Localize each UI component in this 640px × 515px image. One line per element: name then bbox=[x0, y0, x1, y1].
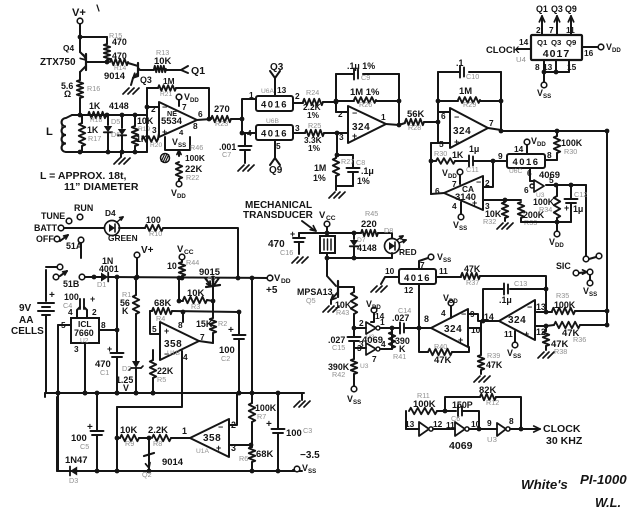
svg-text:68K: 68K bbox=[154, 297, 171, 308]
svg-text:+: + bbox=[164, 326, 169, 336]
svg-text:82K: 82K bbox=[479, 384, 496, 395]
svg-text:470: 470 bbox=[112, 51, 127, 61]
svg-text:4: 4 bbox=[68, 307, 73, 317]
svg-text:R22: R22 bbox=[186, 173, 199, 182]
svg-text:4069: 4069 bbox=[362, 334, 383, 345]
svg-text:+: + bbox=[564, 203, 569, 213]
svg-text:+: + bbox=[290, 229, 295, 239]
svg-text:SS: SS bbox=[178, 142, 186, 149]
svg-text:+5: +5 bbox=[266, 285, 278, 296]
svg-text:3: 3 bbox=[359, 339, 364, 349]
svg-text:R42: R42 bbox=[332, 370, 345, 379]
svg-text:+: + bbox=[472, 198, 477, 208]
svg-text:Q1: Q1 bbox=[191, 65, 205, 77]
svg-text:1%: 1% bbox=[307, 110, 320, 120]
svg-text:1: 1 bbox=[381, 112, 386, 122]
svg-text:1M 1%: 1M 1% bbox=[350, 86, 380, 97]
svg-text:6: 6 bbox=[198, 109, 203, 119]
svg-text:+: + bbox=[216, 443, 221, 453]
svg-text:R23: R23 bbox=[215, 119, 228, 128]
svg-text:4: 4 bbox=[381, 339, 386, 349]
svg-text:R30: R30 bbox=[434, 149, 447, 158]
svg-text:324: 324 bbox=[444, 324, 462, 335]
svg-text:100: 100 bbox=[146, 215, 161, 225]
svg-text:2: 2 bbox=[338, 109, 343, 119]
svg-text:7: 7 bbox=[549, 25, 554, 35]
svg-text:3: 3 bbox=[152, 125, 157, 135]
svg-text:Ω: Ω bbox=[64, 89, 71, 99]
svg-text:220: 220 bbox=[361, 218, 377, 229]
svg-text:Q3: Q3 bbox=[551, 38, 562, 47]
svg-text:+: + bbox=[454, 137, 459, 147]
svg-text:8: 8 bbox=[509, 416, 514, 426]
svg-text:4148: 4148 bbox=[357, 243, 377, 253]
svg-text:C15: C15 bbox=[332, 343, 345, 352]
svg-text:R8: R8 bbox=[153, 439, 162, 448]
svg-text:CLOCK: CLOCK bbox=[543, 423, 581, 435]
svg-text:11: 11 bbox=[446, 420, 455, 430]
svg-text:C3: C3 bbox=[303, 426, 312, 435]
svg-text:9: 9 bbox=[487, 418, 492, 428]
svg-text:D2: D2 bbox=[122, 364, 131, 373]
svg-text:D6: D6 bbox=[111, 130, 120, 139]
svg-text:CC: CC bbox=[184, 249, 194, 256]
svg-text:R12: R12 bbox=[486, 398, 499, 407]
svg-text:R27: R27 bbox=[341, 157, 354, 166]
svg-text:+: + bbox=[49, 290, 55, 301]
svg-text:10K: 10K bbox=[154, 55, 171, 66]
svg-text:TRANSDUCER: TRANSDUCER bbox=[243, 210, 313, 221]
svg-text:+: + bbox=[90, 294, 95, 304]
svg-text:Q1: Q1 bbox=[536, 4, 548, 14]
svg-text:Q9: Q9 bbox=[269, 165, 283, 176]
svg-text:BATT: BATT bbox=[34, 223, 58, 233]
svg-text:100K: 100K bbox=[554, 300, 576, 310]
svg-text:.1μ 1%: .1μ 1% bbox=[347, 61, 375, 71]
svg-text:47K: 47K bbox=[486, 360, 503, 370]
svg-text:7660: 7660 bbox=[74, 328, 94, 338]
svg-text:R37: R37 bbox=[466, 278, 479, 287]
svg-text:GREEN: GREEN bbox=[108, 233, 138, 243]
svg-text:270: 270 bbox=[214, 103, 230, 114]
svg-text:C2: C2 bbox=[221, 354, 230, 363]
svg-text:DD: DD bbox=[190, 97, 199, 104]
svg-text:DD: DD bbox=[281, 278, 291, 285]
svg-text:14: 14 bbox=[514, 144, 524, 154]
svg-text:2: 2 bbox=[359, 318, 364, 328]
svg-text:R25: R25 bbox=[308, 121, 321, 130]
svg-text:1%: 1% bbox=[313, 173, 326, 183]
svg-text:−: − bbox=[454, 112, 459, 122]
svg-text:4: 4 bbox=[452, 201, 457, 211]
svg-text:8: 8 bbox=[101, 320, 106, 330]
svg-text:V+: V+ bbox=[72, 7, 86, 19]
svg-text:U6A: U6A bbox=[261, 88, 275, 95]
svg-text:R38: R38 bbox=[554, 347, 567, 356]
svg-text:1: 1 bbox=[249, 90, 254, 100]
svg-text:4148: 4148 bbox=[109, 101, 129, 111]
svg-text:U4: U4 bbox=[516, 55, 527, 64]
svg-text:13: 13 bbox=[277, 85, 287, 95]
svg-text:Q4: Q4 bbox=[63, 43, 74, 53]
svg-text:3: 3 bbox=[295, 123, 300, 133]
svg-text:47K: 47K bbox=[434, 354, 451, 365]
svg-text:5: 5 bbox=[549, 175, 554, 185]
svg-text:8: 8 bbox=[424, 314, 429, 324]
svg-text:R20: R20 bbox=[150, 142, 163, 149]
svg-text:U3: U3 bbox=[487, 435, 497, 444]
svg-text:+: + bbox=[162, 127, 167, 137]
svg-text:C16: C16 bbox=[280, 248, 293, 257]
svg-text:1M: 1M bbox=[163, 76, 175, 86]
svg-text:R32: R32 bbox=[483, 217, 496, 226]
svg-text:2: 2 bbox=[151, 104, 156, 114]
svg-text:7: 7 bbox=[420, 260, 425, 270]
svg-text:W.L.: W.L. bbox=[595, 495, 621, 510]
svg-text:C10: C10 bbox=[466, 72, 479, 81]
svg-text:R36: R36 bbox=[573, 335, 586, 344]
svg-text:10: 10 bbox=[167, 261, 177, 271]
svg-text:10K: 10K bbox=[187, 287, 204, 298]
svg-text:R3: R3 bbox=[191, 302, 200, 311]
svg-text:DD: DD bbox=[177, 193, 186, 200]
svg-text:16: 16 bbox=[584, 48, 594, 58]
svg-text:Q1: Q1 bbox=[537, 38, 548, 47]
svg-text:C13: C13 bbox=[514, 279, 527, 288]
svg-text:10: 10 bbox=[471, 419, 481, 429]
svg-text:R9: R9 bbox=[125, 439, 134, 448]
svg-text:8: 8 bbox=[193, 121, 198, 131]
svg-text:2: 2 bbox=[295, 91, 300, 101]
svg-text:30 KHZ: 30 KHZ bbox=[546, 435, 583, 447]
svg-text:R19: R19 bbox=[138, 126, 151, 133]
svg-text:CELLS: CELLS bbox=[11, 326, 44, 337]
svg-text:C7: C7 bbox=[222, 150, 231, 159]
svg-text:SS: SS bbox=[443, 257, 451, 264]
svg-text:13: 13 bbox=[536, 302, 546, 312]
svg-text:CLOCK: CLOCK bbox=[486, 44, 520, 55]
svg-text:.027: .027 bbox=[392, 313, 409, 323]
svg-text:4: 4 bbox=[441, 308, 446, 318]
svg-text:D3: D3 bbox=[69, 476, 78, 485]
svg-text:DD: DD bbox=[537, 141, 546, 148]
svg-text:V+: V+ bbox=[141, 245, 154, 256]
svg-text:4016: 4016 bbox=[261, 128, 288, 139]
svg-text:100K: 100K bbox=[413, 398, 436, 409]
svg-text:SS: SS bbox=[589, 291, 597, 298]
svg-text:9014: 9014 bbox=[162, 456, 184, 467]
svg-text:Q9: Q9 bbox=[566, 38, 577, 47]
svg-text:U1B: U1B bbox=[167, 350, 181, 357]
svg-text:11: 11 bbox=[504, 329, 513, 339]
svg-text:−: − bbox=[527, 302, 532, 312]
svg-text:10: 10 bbox=[385, 266, 395, 276]
svg-text:R39: R39 bbox=[487, 351, 500, 360]
svg-text:R28: R28 bbox=[408, 123, 421, 132]
svg-text:C11: C11 bbox=[466, 165, 479, 174]
svg-text:C1: C1 bbox=[100, 368, 109, 377]
svg-text:2: 2 bbox=[92, 307, 97, 317]
svg-text:Q9: Q9 bbox=[565, 4, 577, 14]
svg-text:+: + bbox=[524, 329, 529, 339]
svg-text:D1: D1 bbox=[97, 280, 106, 289]
svg-text:68K: 68K bbox=[256, 448, 273, 459]
svg-text:−: − bbox=[476, 177, 481, 187]
svg-text:R6: R6 bbox=[239, 454, 248, 463]
svg-text:1μ: 1μ bbox=[573, 204, 583, 214]
svg-text:D8: D8 bbox=[384, 226, 393, 235]
svg-text:SS: SS bbox=[459, 225, 467, 232]
svg-text:150P: 150P bbox=[452, 400, 473, 410]
svg-text:+: + bbox=[458, 335, 463, 345]
svg-text:R29: R29 bbox=[463, 100, 476, 109]
svg-text:SS: SS bbox=[353, 399, 361, 406]
svg-text:4: 4 bbox=[247, 128, 252, 138]
svg-text:6: 6 bbox=[441, 111, 446, 121]
svg-text:1N47: 1N47 bbox=[65, 454, 88, 465]
svg-text:1: 1 bbox=[182, 426, 187, 436]
svg-text:14: 14 bbox=[519, 37, 529, 47]
svg-text:AA: AA bbox=[19, 315, 33, 326]
svg-text:2.2K: 2.2K bbox=[148, 424, 168, 435]
svg-text:Q3: Q3 bbox=[270, 62, 284, 73]
svg-text:C9: C9 bbox=[361, 73, 370, 82]
svg-text:U3: U3 bbox=[360, 363, 369, 370]
svg-text:−: − bbox=[352, 108, 357, 118]
svg-text:SS: SS bbox=[543, 93, 551, 100]
svg-text:SIC: SIC bbox=[556, 261, 571, 271]
svg-text:V: V bbox=[177, 243, 184, 254]
svg-text:R21: R21 bbox=[160, 91, 173, 98]
svg-text:5: 5 bbox=[276, 141, 281, 151]
svg-text:12: 12 bbox=[404, 285, 414, 295]
svg-text:3: 3 bbox=[74, 344, 79, 354]
svg-text:Q3: Q3 bbox=[551, 4, 563, 14]
svg-text:100K: 100K bbox=[185, 153, 205, 163]
svg-text:324: 324 bbox=[508, 315, 526, 326]
svg-text:R44: R44 bbox=[186, 258, 199, 267]
svg-text:R2: R2 bbox=[218, 319, 227, 328]
svg-text:7: 7 bbox=[452, 179, 457, 189]
svg-text:12: 12 bbox=[433, 419, 443, 429]
svg-text:4016: 4016 bbox=[513, 156, 540, 167]
svg-text:R35: R35 bbox=[556, 291, 569, 300]
svg-text:R24: R24 bbox=[306, 88, 319, 97]
svg-text:7: 7 bbox=[489, 118, 494, 128]
svg-text:R46: R46 bbox=[190, 143, 203, 152]
svg-text:8: 8 bbox=[535, 62, 540, 72]
svg-text:1K: 1K bbox=[452, 150, 464, 160]
svg-text:DD: DD bbox=[555, 242, 564, 249]
svg-text:4016: 4016 bbox=[261, 99, 288, 110]
svg-text:9V: 9V bbox=[19, 303, 32, 314]
svg-text:1K: 1K bbox=[136, 134, 148, 144]
svg-text:U1A: U1A bbox=[196, 448, 210, 455]
svg-text:6: 6 bbox=[524, 185, 529, 195]
svg-text:C5: C5 bbox=[80, 442, 89, 451]
svg-text:8: 8 bbox=[547, 150, 552, 160]
svg-text:V: V bbox=[319, 209, 326, 220]
svg-text:DD: DD bbox=[612, 47, 621, 54]
svg-text:4: 4 bbox=[183, 352, 188, 362]
svg-text:100: 100 bbox=[286, 427, 302, 438]
svg-text:4016: 4016 bbox=[404, 272, 431, 283]
svg-text:1M: 1M bbox=[314, 163, 326, 173]
svg-text:4017: 4017 bbox=[543, 48, 570, 60]
svg-text:11” DIAMETER: 11” DIAMETER bbox=[64, 181, 139, 193]
svg-text:Q5: Q5 bbox=[306, 296, 316, 305]
svg-text:11: 11 bbox=[439, 266, 448, 276]
svg-text:2: 2 bbox=[536, 25, 541, 35]
svg-text:1K: 1K bbox=[89, 101, 101, 111]
svg-text:.1μ: .1μ bbox=[361, 166, 374, 176]
svg-text:L: L bbox=[46, 126, 53, 138]
svg-text:U6B: U6B bbox=[266, 118, 280, 125]
svg-text:PI-1000: PI-1000 bbox=[580, 472, 627, 487]
svg-text:51B: 51B bbox=[63, 279, 79, 289]
svg-text:R5: R5 bbox=[157, 375, 166, 384]
svg-text:15K: 15K bbox=[196, 319, 213, 329]
svg-text:9014: 9014 bbox=[104, 70, 126, 81]
svg-text:10K: 10K bbox=[120, 424, 137, 435]
svg-text:14: 14 bbox=[484, 312, 494, 322]
svg-text:.1μ: .1μ bbox=[499, 295, 512, 305]
svg-text:D4: D4 bbox=[105, 208, 116, 218]
svg-text:RUN: RUN bbox=[74, 203, 93, 213]
svg-text:47K: 47K bbox=[464, 264, 481, 274]
svg-text:13: 13 bbox=[405, 419, 415, 429]
svg-text:358: 358 bbox=[164, 339, 182, 350]
svg-text:3: 3 bbox=[485, 201, 490, 211]
svg-text:V: V bbox=[123, 383, 129, 393]
svg-text:R10: R10 bbox=[149, 229, 162, 238]
svg-text:4: 4 bbox=[179, 128, 184, 137]
svg-text:10: 10 bbox=[471, 325, 481, 335]
svg-text:DD: DD bbox=[449, 298, 458, 305]
svg-text:Q3: Q3 bbox=[140, 75, 152, 85]
svg-text:56K: 56K bbox=[407, 108, 424, 119]
svg-text:D5: D5 bbox=[111, 117, 120, 126]
svg-text:7: 7 bbox=[372, 354, 377, 364]
svg-text:R17: R17 bbox=[88, 134, 101, 143]
svg-text:U6C: U6C bbox=[509, 168, 523, 175]
svg-text:1μ: 1μ bbox=[469, 144, 479, 154]
svg-text:R41: R41 bbox=[393, 352, 406, 361]
svg-text:−: − bbox=[461, 309, 466, 319]
svg-text:R43: R43 bbox=[336, 308, 349, 317]
svg-text:11: 11 bbox=[566, 25, 575, 35]
svg-text:1%: 1% bbox=[357, 176, 370, 186]
svg-text:R7: R7 bbox=[257, 412, 266, 421]
svg-text:V: V bbox=[274, 272, 281, 283]
svg-text:−3.5: −3.5 bbox=[300, 450, 320, 461]
svg-text:.1: .1 bbox=[456, 58, 463, 68]
svg-text:9: 9 bbox=[498, 151, 503, 161]
svg-text:OFF: OFF bbox=[36, 234, 54, 244]
svg-text:5534: 5534 bbox=[161, 115, 183, 126]
svg-text:C12: C12 bbox=[574, 190, 587, 199]
svg-text:K: K bbox=[122, 306, 129, 316]
svg-text:1M: 1M bbox=[459, 85, 472, 96]
svg-text:R26: R26 bbox=[359, 100, 372, 109]
svg-text:ZTX750: ZTX750 bbox=[40, 57, 76, 68]
svg-text:−: − bbox=[218, 422, 223, 432]
svg-text:R30: R30 bbox=[564, 147, 577, 156]
svg-text:14: 14 bbox=[375, 311, 385, 321]
svg-text:4069: 4069 bbox=[449, 440, 473, 452]
svg-text:R16: R16 bbox=[87, 84, 100, 93]
svg-text:470: 470 bbox=[112, 37, 127, 47]
svg-text:TUNE: TUNE bbox=[41, 211, 65, 221]
svg-text:RED: RED bbox=[399, 247, 417, 257]
svg-text:SS: SS bbox=[513, 353, 521, 360]
svg-text:White's: White's bbox=[521, 477, 568, 492]
svg-text:R45: R45 bbox=[365, 209, 378, 218]
svg-text:SS: SS bbox=[308, 468, 316, 475]
svg-text:Q2: Q2 bbox=[142, 470, 152, 479]
svg-text:1%: 1% bbox=[308, 143, 321, 153]
svg-text:7: 7 bbox=[182, 102, 187, 112]
svg-text:5: 5 bbox=[152, 324, 157, 334]
svg-text:324: 324 bbox=[352, 122, 370, 133]
svg-text:DD: DD bbox=[372, 304, 381, 311]
svg-text:R40: R40 bbox=[434, 342, 447, 351]
svg-text:R18: R18 bbox=[90, 117, 103, 124]
svg-text:324: 324 bbox=[453, 126, 471, 137]
